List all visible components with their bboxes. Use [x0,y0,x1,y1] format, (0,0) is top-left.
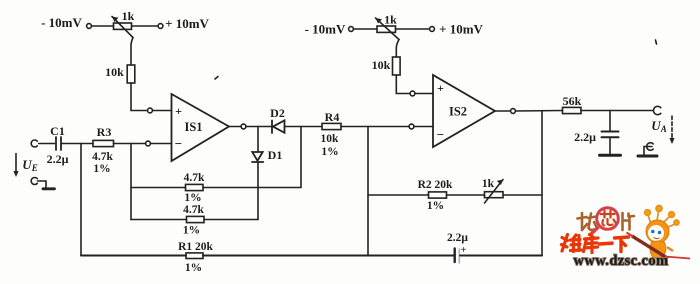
terminal UE bottom [31,178,37,185]
svg-text:1%: 1% [183,225,200,237]
arrow UA (dashed) [669,116,674,144]
node IS1 +input [148,108,153,113]
resistor R1 20k [186,253,203,259]
wire output cap branch [609,111,611,132]
watermark mascot antennas [645,206,679,229]
watermark text 库 [584,235,599,253]
node +10mV terminal (pot1 right) [158,24,163,29]
node IS2 +input [410,91,415,96]
svg-text:1k: 1k [482,178,495,190]
watermark text 维 [562,235,582,252]
wire feedback vertical x131 [130,144,132,220]
wire [515,110,562,113]
svg-text:1k: 1k [122,9,135,23]
resistor R4 10k [322,123,341,129]
wire bottom row left [81,255,186,257]
op-amp IS2 [433,75,495,147]
svg-text:−: − [437,127,444,142]
svg-text:IS2: IS2 [449,105,467,119]
svg-text:1k: 1k [384,13,397,27]
svg-text:10k: 10k [105,65,124,79]
potentiometer 1k (feedback trim) [485,180,504,204]
wire feedback row1 left [131,187,186,189]
resistor 4.7k (row2 feedback) [187,216,205,222]
node IS2 -input terminal [409,124,414,129]
diode D2 [272,120,285,133]
watermark magnifier ring [597,208,619,230]
wire [341,126,409,128]
wire [285,126,323,128]
arrow UE [13,154,18,178]
svg-text:www.dzsc.com: www.dzsc.com [573,253,668,269]
svg-text:+: + [461,245,467,256]
svg-text:1%: 1% [321,146,338,158]
node IS2 output [511,109,516,114]
svg-text:−: − [175,136,182,151]
svg-text:- 10mV: - 10mV [305,22,346,37]
wire [114,143,146,145]
watermark mascot mouth [654,238,660,239]
svg-text:R2 20k: R2 20k [418,179,453,191]
watermark mascot face [648,225,664,241]
wire [152,110,171,112]
wire [38,181,47,188]
watermark text 找 [578,213,597,230]
watermark mascot arm [640,241,673,251]
svg-text:D2: D2 [270,106,285,120]
wire IS1 output [229,126,241,128]
svg-text:2.2μ: 2.2μ [574,130,596,144]
ground (output cap) [600,154,621,157]
wire [447,194,485,196]
node IS1 output [241,124,246,129]
speckle [656,40,657,44]
wire [132,25,159,27]
wire [39,143,55,145]
watermark text 一 [600,241,613,245]
capacitor C1 2.2u [56,137,61,150]
terminal UE top [31,140,37,147]
wire [91,25,113,27]
resistor 10k (stage2 divider) [393,57,401,75]
wire input junction vertical x81 [80,144,82,256]
svg-text:1%: 1% [427,200,444,212]
capacitor 2.2u (output) [602,132,619,138]
terminal UA bottom [647,143,654,151]
wire [246,126,272,128]
terminal UA top [653,106,660,114]
watermark magnifier handle [591,227,599,234]
wire pot1 wiper down [131,38,133,66]
wire [414,126,433,128]
node -10mV terminal (pot2 left) [349,27,354,32]
svg-text:UA: UA [651,118,666,134]
wire R4 node vertical x368 [367,127,369,256]
ground (input) [43,187,55,190]
svg-text:IS1: IS1 [184,120,202,134]
svg-text:56k: 56k [563,94,582,108]
node IS1 -input [146,141,151,146]
potentiometer 1k (stage1 offset pot) [112,17,133,38]
svg-text:4.7k: 4.7k [92,151,113,163]
svg-text:+: + [437,81,444,95]
wire [131,83,148,111]
wire pot2 wiper down [396,40,399,58]
svg-text:10k: 10k [321,133,340,145]
wire [644,147,652,155]
resistor 4.7k (row1 feedback) [186,184,204,190]
diode D1 branch wire [257,127,259,152]
watermark text 下 [615,237,629,252]
watermark mascot legs [651,257,666,265]
svg-text:+ 10mV: + 10mV [439,22,483,37]
wire [257,162,259,220]
svg-text:R1 20k: R1 20k [178,241,213,253]
svg-text:4.7k: 4.7k [183,204,204,216]
watermark mascot pen [632,236,668,259]
wire [353,28,377,30]
wire [204,219,258,221]
svg-text:+ 10mV: + 10mV [165,16,209,31]
diode D1 [252,152,263,162]
potentiometer 1k (stage2 offset pot) [376,18,400,40]
capacitor 2.2u (bottom, polarized) [455,249,460,264]
svg-text:4.7k: 4.7k [184,172,205,184]
watermark mascot head [646,220,669,243]
wire [504,194,543,196]
svg-text:R3: R3 [97,125,112,139]
watermark mascot body [650,241,666,258]
svg-text:- 10mV: - 10mV [41,15,82,30]
wire feedback row2 [131,219,187,221]
svg-text:10k: 10k [372,58,391,72]
watermark text 芯 [601,211,616,226]
node -10mV terminal (pot1 left) [87,24,92,29]
wire [415,93,433,95]
wire [61,143,93,145]
svg-text:R4: R4 [325,110,340,124]
wire [203,127,301,188]
svg-text:C1: C1 [50,124,65,138]
resistor 10k (stage1 divider) [127,65,135,83]
wire [581,110,653,112]
svg-text:1%: 1% [185,262,202,274]
watermark mascot eyes [651,230,655,234]
svg-text:1%: 1% [93,163,110,175]
wire [203,255,454,257]
svg-text:+: + [175,104,182,118]
wire IS2 feedback vertical x542 [541,111,543,256]
watermark text 片 [623,213,635,230]
wire [609,137,611,153]
wire [396,75,410,94]
wire [396,28,430,30]
resistor R3 4.7k [93,140,114,146]
resistor R2 20k [429,192,447,198]
op-amp IS1 [172,94,230,161]
wire [460,255,542,257]
svg-text:2.2μ: 2.2μ [447,232,468,244]
speckle [215,77,218,80]
wire [150,143,171,145]
svg-text:UE: UE [22,157,37,173]
svg-text:2.2μ: 2.2μ [47,152,69,166]
ground (UA) [638,155,657,158]
wire R2 row [368,194,429,196]
svg-text:1%: 1% [184,192,201,204]
resistor 56k [563,107,582,113]
wire IS2 output [495,110,511,112]
node +10mV terminal (pot2 right) [430,27,435,32]
svg-text:D1: D1 [268,148,283,162]
